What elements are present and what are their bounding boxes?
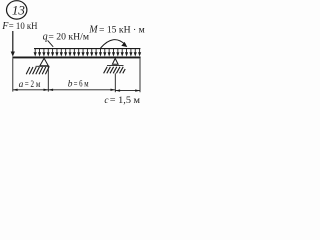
svg-text:13: 13 <box>12 2 26 17</box>
right support B: roller triangle <box>112 58 118 64</box>
dimension line c <box>115 90 140 92</box>
dimension arrowheads <box>13 89 140 92</box>
label M = 15 kN·m <box>88 24 145 35</box>
right support hatching <box>104 67 126 74</box>
left support A: pin triangle <box>40 58 48 65</box>
label F = 10 kN <box>1 21 38 32</box>
left support ground line <box>36 65 50 67</box>
svg-text:q: q <box>43 31 48 42</box>
label a = 2 m <box>19 80 41 90</box>
moment M curved arrow <box>101 40 128 48</box>
svg-text:= 10 кН: = 10 кН <box>9 22 38 32</box>
distributed load q: top line <box>34 48 140 50</box>
extension line under left support <box>47 66 49 91</box>
extension line under right support <box>114 73 116 92</box>
label c = 1,5 m <box>104 96 140 106</box>
svg-text:= 6 м: = 6 м <box>74 80 89 90</box>
svg-text:= 20 кН/м: = 20 кН/м <box>48 32 89 42</box>
svg-text:a: a <box>19 80 24 90</box>
svg-text:M: M <box>88 24 98 35</box>
label b = 6 m <box>68 80 89 90</box>
beam <box>12 57 140 59</box>
svg-text:= 15 кН · м: = 15 кН · м <box>99 25 145 35</box>
problem number badge circle 13 <box>7 1 27 19</box>
svg-text:= 2 м: = 2 м <box>25 80 41 90</box>
extension line right end <box>139 58 141 92</box>
svg-text:= 1,5 м: = 1,5 м <box>110 96 140 106</box>
force F arrow <box>11 31 15 57</box>
distributed load q: arrows <box>34 49 142 57</box>
label q = 20 kN/m <box>43 31 89 42</box>
svg-text:b: b <box>68 80 73 90</box>
leader line from q label to load <box>48 40 54 46</box>
right support ground line <box>107 65 124 67</box>
extension line left end <box>12 58 14 91</box>
left support hatching <box>26 67 49 74</box>
dimension line a-b <box>13 89 116 91</box>
